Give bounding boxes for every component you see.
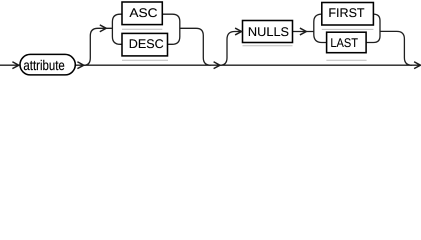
svg-text:LAST: LAST	[330, 36, 358, 50]
svg-text:ASC: ASC	[129, 6, 157, 20]
svg-text:NULLS: NULLS	[248, 25, 289, 39]
svg-text:DESC: DESC	[129, 37, 164, 51]
svg-text:attribute: attribute	[23, 57, 65, 73]
svg-text:FIRST: FIRST	[328, 6, 365, 20]
